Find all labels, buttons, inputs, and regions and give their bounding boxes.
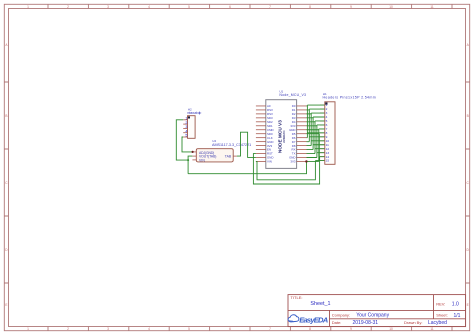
wire taps MCU right pins [307,106,320,162]
svg-text:7: 7 [269,5,271,9]
header H1 body [325,102,335,165]
svg-text:11: 11 [430,5,434,9]
svg-text:Drawn By:: Drawn By: [404,320,422,325]
junction 3V3 pin [305,160,307,162]
svg-text:REV:: REV: [436,301,445,306]
svg-text:ESP8266MOD: ESP8266MOD [283,130,286,143]
svg-text:10: 10 [389,5,393,9]
title block [288,295,466,327]
svg-text:5: 5 [185,134,187,138]
svg-text:B: B [467,114,469,118]
header H1 pins [320,105,325,161]
svg-text:VIN: VIN [199,158,205,162]
svg-text:micro usb dip: micro usb dip [187,111,201,115]
wire RST outer loop [253,154,319,184]
svg-text:E: E [467,303,469,307]
svg-text:B: B [5,114,7,118]
svg-text:6: 6 [229,5,231,9]
wire VOUT down [188,156,192,174]
regulator U2 pins [192,152,237,160]
svg-text:1.0: 1.0 [452,301,459,307]
svg-text:3V3: 3V3 [290,160,296,164]
svg-text:9: 9 [350,327,352,331]
regulator U2 body [196,149,233,162]
svg-text:4: 4 [148,327,150,331]
MCU U1 right pin names [289,104,296,164]
connector H2 pin numbers [185,117,187,138]
svg-text:3: 3 [107,5,109,9]
svg-text:2019-08-31: 2019-08-31 [353,320,379,326]
svg-text:5: 5 [188,327,190,331]
junction VIN tee [187,159,189,161]
wire TAB to GND [237,132,256,157]
svg-text:2: 2 [67,327,69,331]
svg-text:11: 11 [430,327,434,331]
wire 3V3 bottom run [188,161,306,173]
wire taps header bottom [307,133,324,161]
svg-text:Sheet_1: Sheet_1 [310,301,330,307]
svg-text:8: 8 [309,327,311,331]
MCU U1 left pins [256,106,266,162]
svg-text:1: 1 [27,327,29,331]
svg-text:4: 4 [148,5,150,9]
MCU U1 right pins [297,106,307,162]
svg-text:8: 8 [309,5,311,9]
svg-text:TAB: TAB [225,155,232,159]
svg-text:E: E [5,303,7,307]
svg-text:Headers Pins1x15P 2.54mm: Headers Pins1x15P 2.54mm [323,95,376,99]
svg-text:9: 9 [350,5,352,9]
junction ADJ [192,151,194,153]
wire bus verticals MCU to H1 [307,105,319,161]
header H1 pin 1 marker [325,102,327,104]
svg-text:Node_MCU_V3: Node_MCU_V3 [279,93,306,97]
EasyEDA logo [288,315,328,324]
wire taps header top [307,105,324,129]
svg-text:3: 3 [107,327,109,331]
MCU U1 left pin names [267,104,274,164]
connector H2 pins 1-5 [183,120,187,137]
svg-text:10: 10 [389,327,393,331]
connector H2 body [188,116,196,139]
svg-text:Company:: Company: [332,312,350,317]
svg-text:VIN: VIN [267,160,272,164]
svg-text:Sheet:: Sheet: [436,313,448,318]
title block texts [291,295,461,326]
svg-text:2: 2 [67,5,69,9]
svg-text:5: 5 [188,5,190,9]
wire H2.1 to VIN net [176,120,188,160]
connector H2 pin 1 marker [188,116,190,118]
svg-text:EasyEDA: EasyEDA [299,315,328,324]
svg-text:TITLE:: TITLE: [291,295,303,300]
svg-text:7: 7 [269,327,271,331]
svg-text:1: 1 [27,5,29,9]
MCU U1 body [266,100,297,169]
wire VIN middle loop [256,161,316,180]
svg-text:6: 6 [229,327,231,331]
header H1 pin numbers [326,103,330,163]
svg-text:Your Company: Your Company [356,313,389,319]
svg-text:AMS1117-3.3_C347221: AMS1117-3.3_C347221 [212,143,251,147]
svg-text:15: 15 [326,159,330,163]
svg-text:Date:: Date: [332,320,342,325]
svg-text:1/1: 1/1 [454,313,461,319]
wire H2.5 to ADJ [182,137,192,152]
svg-text:Lacybed: Lacybed [428,320,447,326]
